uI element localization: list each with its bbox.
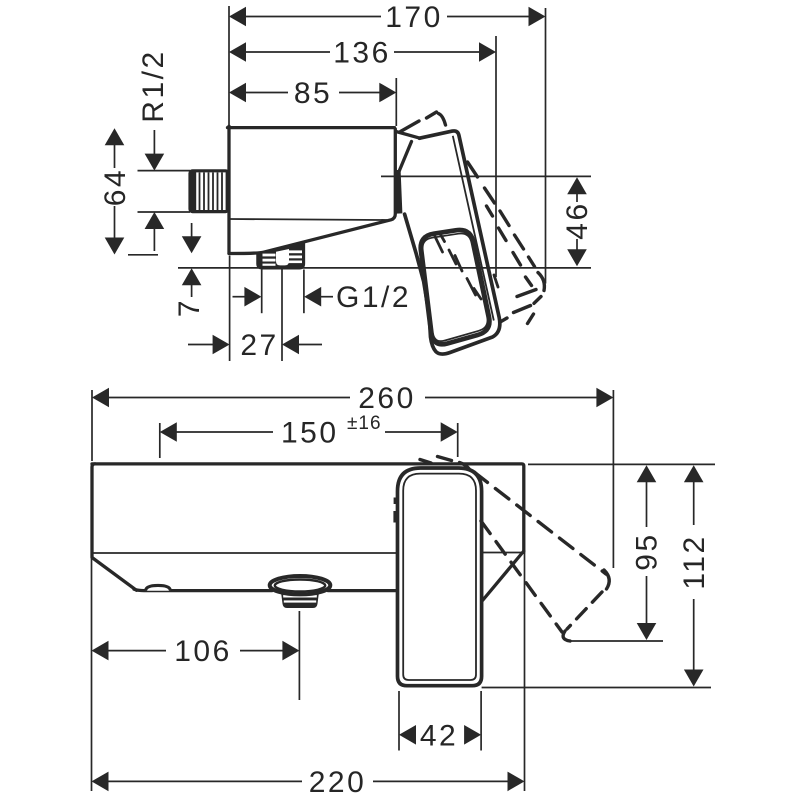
dashed swung-open handle (front view) [420,457,609,642]
dimension 220 [92,766,525,799]
handle neck [396,132,420,139]
dimension 95 [631,465,664,640]
svg-text:170: 170 [385,1,443,34]
pivot reference line (46 top) [381,175,591,177]
dashed swung-open handle (side view) [401,112,545,324]
grip nubs on left edge [394,498,399,505]
svg-text:260: 260 [358,382,416,415]
dimension 260 [92,382,613,415]
extension line wall/back (left) [228,6,230,126]
extension line 136 right [495,36,497,277]
dimension 136 [229,37,496,70]
svg-text:220: 220 [309,766,367,799]
dimension 46 (vertical right) [561,177,594,266]
bottom reference line 95 [567,640,663,642]
svg-text:7: 7 [173,298,206,317]
small screw dome on underside [146,585,171,590]
svg-text:112: 112 [678,534,711,589]
svg-text:64: 64 [99,168,132,206]
dimension 64 (vertical, left) [99,128,158,255]
handle lever (solid, side view) [396,131,500,354]
svg-text:106: 106 [174,635,232,668]
lower reference line (46 bottom / outlet bottom) [178,267,591,269]
dimension 85 [229,77,396,110]
svg-text:150: 150 [281,417,339,450]
mixer body (side view) [228,126,396,253]
svg-text:85: 85 [294,77,332,110]
dimension 42 [399,691,481,753]
dimension 170 [229,1,546,34]
dimension 112 [678,465,711,686]
handle stem [398,170,400,214]
dimension 27 [188,329,322,362]
extension line 170 right [545,8,547,284]
face reflection marks [435,235,498,300]
label G1/2 with arrows [233,281,412,314]
svg-text:46: 46 [561,201,594,239]
extension line 85 right [395,78,397,126]
svg-text:27: 27 [240,329,278,362]
bottom reference line 112 [482,687,711,689]
handle face plate [421,230,490,344]
svg-text:R1/2: R1/2 [137,49,170,122]
aerator centre line [298,611,300,700]
threaded inlet connector R1/2 [190,171,228,212]
dimension 150 +/-16 [160,413,458,450]
outlet extension stubs and centre line [261,270,263,314]
handle (front view) [396,468,482,686]
outlet G1/2 (side view) [257,241,304,269]
svg-text:±16: ±16 [347,413,382,434]
dimension 106 [92,635,300,668]
dimension 7 (vertical small) [173,223,206,317]
aerator outlet (front view) [270,576,331,608]
label R1/2 with leader arrows [137,49,190,251]
svg-text:42: 42 [420,720,458,753]
svg-text:136: 136 [333,37,391,70]
27 extension (body back) [229,256,231,362]
svg-text:95: 95 [631,532,664,570]
top reference line (95/112) [528,463,715,465]
svg-text:G1/2: G1/2 [336,281,411,314]
mixer body (front view) [92,464,524,601]
extension lines [91,390,93,461]
